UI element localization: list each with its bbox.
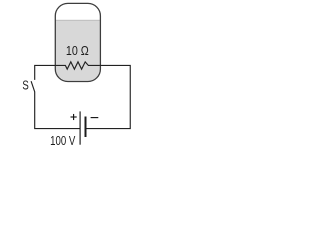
minus sign: [91, 117, 99, 118]
battery negative plate (short thick): [85, 117, 87, 138]
switch S blade (open): [31, 81, 35, 92]
resistor R 10 ohm (zigzag): [56, 62, 100, 69]
wire top-right + right side + bottom to battery - terminal: [86, 65, 130, 128]
liquid surface line: [55, 20, 101, 21]
beaker/container outline: [55, 3, 100, 81]
svg-text:S: S: [22, 78, 29, 93]
liquid fill inside beaker: [55, 20, 101, 82]
wire left lower + bottom to battery + terminal: [35, 92, 80, 129]
wire top-left (container to switch corner, down to upper contact): [35, 65, 56, 79]
plus sign: [71, 114, 77, 120]
battery positive plate (long thin): [79, 111, 81, 144]
svg-text:10 Ω: 10 Ω: [66, 43, 89, 58]
svg-text:100 V: 100 V: [50, 134, 76, 148]
